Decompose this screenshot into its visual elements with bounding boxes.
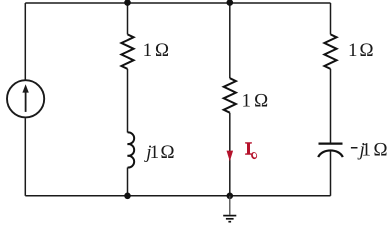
label Io : bold serif I: [245, 142, 252, 155]
wire branch1 middle lead: [127, 69, 129, 133]
capacitor -j1ohm curved plate: [318, 150, 343, 157]
resistor 1ohm branch2: [224, 78, 236, 113]
current arrow Io: [227, 151, 234, 162]
wire branch2 top lead: [229, 3, 231, 78]
node dot bottom branch2: [227, 193, 234, 200]
svg-text:1: 1: [150, 142, 160, 163]
wire branch1 top lead: [127, 3, 129, 34]
svg-text:Ω: Ω: [155, 40, 170, 61]
svg-text:Ω: Ω: [160, 142, 175, 163]
current source I: [7, 80, 44, 117]
node dot top branch2: [227, 0, 234, 6]
wire bottom: [25, 195, 330, 197]
label -j1 Ohm: [351, 147, 358, 149]
ground: [223, 196, 236, 222]
resistor 1ohm branch3: [324, 34, 336, 69]
wire branch3 bottom lead: [330, 151, 332, 196]
svg-text:Ω: Ω: [373, 140, 388, 161]
wire branch3 middle lead: [330, 69, 332, 143]
wire branch2 bottom lead: [229, 113, 231, 196]
wire top: [25, 2, 330, 4]
wire branch3 top lead: [330, 3, 332, 34]
svg-text:Ω: Ω: [359, 40, 374, 61]
resistor 1ohm branch1: [121, 34, 133, 69]
capacitor -j1ohm top plate: [319, 143, 343, 145]
wire left below current source: [24, 118, 26, 196]
node dot top branch1: [124, 0, 131, 6]
svg-text:Ω: Ω: [254, 90, 269, 111]
wire left above current source: [24, 3, 26, 80]
label Io : italic subscript o: [250, 151, 257, 159]
node dot bottom branch1: [124, 193, 131, 200]
svg-text:1: 1: [362, 140, 372, 161]
wire branch1 bottom lead: [127, 168, 129, 196]
svg-text:1: 1: [242, 90, 252, 111]
svg-text:1: 1: [143, 40, 153, 61]
svg-text:1: 1: [348, 40, 358, 61]
inductor j1ohm: [128, 132, 135, 167]
